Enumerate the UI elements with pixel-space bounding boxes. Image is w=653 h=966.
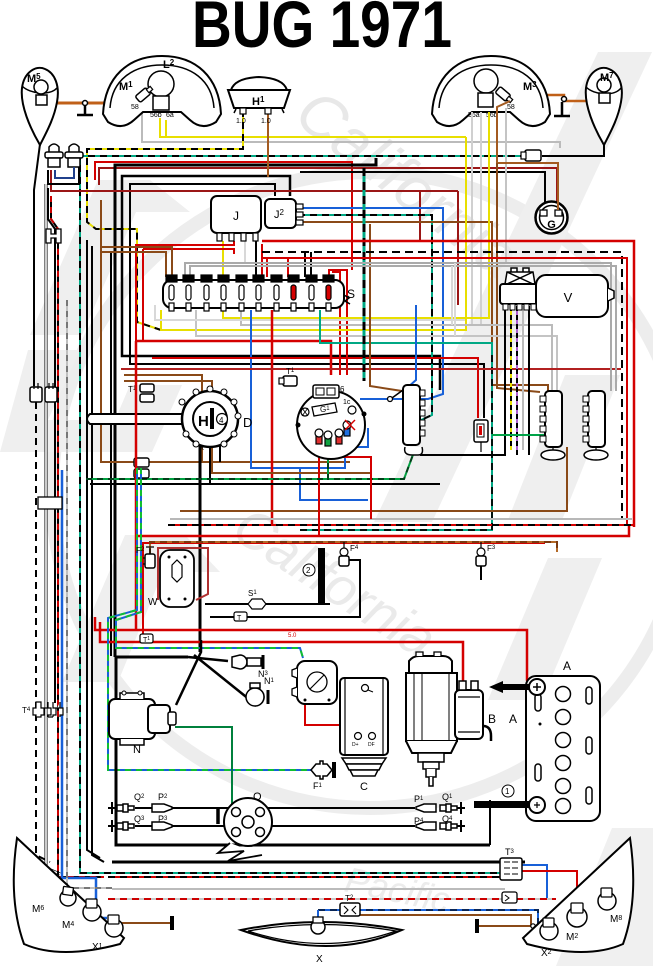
connector block K small (474, 420, 488, 452)
wire V dash1 x511 (510, 306, 512, 450)
svg-text:N: N (133, 744, 141, 756)
wire brown J2 long (298, 222, 548, 393)
arrow to plus (489, 681, 529, 693)
wire red drop fuse6b (266, 258, 268, 277)
interior light W (148, 550, 194, 608)
wire black G y172 (300, 172, 545, 209)
wire white J pin3 (244, 241, 246, 263)
wire yellow-black dash bus y149 (87, 110, 243, 330)
wire bottom bus redgray y899 (108, 898, 556, 900)
battery ground terminal (529, 797, 545, 813)
connector below T3 (502, 892, 517, 903)
svg-text:4: 4 (219, 416, 224, 425)
svg-text:O: O (253, 791, 262, 803)
watermark diagonal slash (374, 52, 652, 522)
wire yellow below fusebox y315 (223, 112, 489, 318)
wire spark main right y808 (268, 807, 415, 809)
taillight X2 right (523, 838, 633, 959)
wire bottom bus teal y873 (118, 872, 516, 874)
svg-text:BUG 1971: BUG 1971 (192, 0, 452, 61)
watermark corner bottom-right (556, 828, 653, 966)
connector 6 on top (313, 385, 339, 398)
svg-text:X: X (316, 954, 323, 965)
wire red y647 solenoid feed (100, 622, 463, 690)
taillight X1 left (14, 838, 124, 953)
svg-text:56b: 56b (150, 112, 162, 119)
fuse box S (163, 275, 355, 311)
wire brown right x565 (180, 447, 567, 511)
fuse F4 (339, 542, 359, 566)
wire red y369 (121, 368, 621, 370)
wire darkred bus y168 (99, 168, 557, 210)
svg-text:W: W (148, 597, 158, 608)
wire brown2 G feed (497, 101, 558, 210)
connector block right2 (583, 391, 608, 460)
svg-text:T: T (237, 615, 242, 622)
connector block E (x406-421) (388, 385, 426, 455)
wire brown elbow fuse0 (100, 252, 166, 277)
wire red T3 (519, 871, 577, 893)
fuse S1 (248, 589, 266, 609)
battery A (474, 659, 600, 821)
wire black-red dash left vertical (67, 300, 112, 888)
wire red vertical x272 (271, 310, 274, 525)
wire brown y375 hook (124, 375, 202, 462)
wire red bus y162 (95, 162, 352, 270)
wire brown mid x370 (370, 224, 402, 391)
red cross mark (345, 420, 355, 430)
svg-text:D+: D+ (352, 742, 359, 748)
wire brown left vertical (101, 200, 350, 462)
horn relay G (536, 202, 568, 234)
wire red J pin2 (136, 241, 234, 341)
wire gray bus y252 (190, 266, 616, 391)
T junction pair left y462 (134, 458, 149, 478)
wire black left vertical x87 (87, 240, 100, 858)
T junction pair x37 y390 (30, 383, 57, 402)
wire red regulator-generator (305, 704, 345, 735)
license light X (241, 917, 402, 965)
wire yellow y330 (161, 137, 466, 330)
wire red right outer x634 (262, 241, 634, 527)
wire blackdash right x622 (262, 252, 622, 519)
wire blue fuse drop x251 (251, 310, 345, 468)
distributor O (212, 791, 272, 861)
wire red box inner (143, 543, 545, 642)
wire bottom bus gray y889 (112, 888, 505, 890)
wire black engine frame left (116, 657, 490, 845)
wire black y359 (152, 358, 478, 418)
wire red vertical x340 (332, 272, 340, 375)
wire black brake U (48, 167, 79, 184)
58 connector left headlight (135, 85, 154, 103)
svg-text:R: R (199, 445, 204, 452)
58 connector right headlight (495, 86, 514, 104)
starter B (406, 652, 496, 786)
bulb X1 (105, 919, 123, 937)
wire red y526 (168, 524, 634, 526)
svg-text:56a: 56a (468, 112, 480, 119)
wire black engine frame top (116, 656, 188, 659)
wire yellow drop 6a (165, 120, 167, 137)
wire black right frame seg (489, 800, 491, 845)
svg-text:V: V (564, 290, 573, 305)
turn signal M5 (22, 68, 58, 145)
wire D drop black3 (219, 446, 221, 462)
wire M5 feed down (34, 144, 40, 386)
wire red drop fuse6 (261, 244, 263, 277)
wire bottom bus reddash y877 (108, 876, 512, 878)
junction node M5 ground (83, 101, 88, 106)
bulb red right (335, 429, 343, 444)
svg-text:1c: 1c (343, 399, 351, 406)
wire bluegreen to regulator (116, 468, 303, 658)
wire brown ground left (116, 922, 170, 924)
headlight assembly right (M3) (432, 56, 550, 126)
svg-text:58: 58 (131, 104, 139, 111)
svg-text:G: G (547, 219, 556, 231)
wire spark main left y826 (135, 825, 230, 827)
wire V black x505 (420, 306, 505, 455)
wire gray drop x241 (241, 310, 552, 391)
svg-text:5.0: 5.0 (288, 633, 297, 639)
wire brown ground right (479, 925, 531, 927)
wire red y640 engine feed (95, 617, 534, 686)
wire black T run y617 (210, 560, 360, 617)
instrument cluster (296, 385, 367, 459)
wire white vert x455 (454, 263, 456, 336)
wire cluster red drop1 (318, 450, 320, 536)
svg-text:1.0: 1.0 (236, 118, 246, 125)
wire cluster blue loop (340, 428, 368, 447)
wire M5 feed lower dashed to T4 (36, 402, 50, 862)
connector T y617 (234, 612, 247, 622)
svg-text:J: J (233, 209, 239, 223)
wire black S1 run (205, 603, 330, 605)
wire cluster green drop (86, 478, 328, 480)
svg-text:1.0: 1.0 (261, 118, 271, 125)
wire red drop fuse8 (287, 258, 289, 277)
wire teal-black dash J2 (298, 215, 432, 420)
wire yellow bus y137 (160, 118, 466, 137)
wire teal-black dash bus y156 (80, 156, 527, 873)
wire gray bus y142 (142, 110, 560, 148)
bulb M6 (60, 890, 76, 906)
watermark circle (52, 172, 653, 808)
wire black connector-to-M7 (542, 143, 604, 156)
fuel gauge G1 (312, 403, 337, 416)
svg-text:C: C (360, 781, 368, 793)
wire black bus y189 (130, 184, 484, 418)
wire brown-dash top W (150, 542, 557, 556)
watermark glyph right (508, 375, 620, 520)
connector T1 y658 (140, 634, 153, 644)
wire V dash3 x523 (522, 306, 524, 450)
connector T2 (340, 894, 360, 916)
wire white vert x452 (451, 266, 453, 325)
wire blackdash mid x364 (363, 168, 366, 381)
wire spark main left y808 (135, 807, 228, 809)
plug boots P2 P3 (152, 792, 172, 830)
wire D drop black2 (90, 483, 440, 485)
bulb M2 (567, 907, 587, 927)
brake switch left (45, 144, 63, 167)
horn H1 (228, 77, 290, 125)
ground bar bottom (474, 801, 529, 808)
wire brown horn drop (267, 110, 269, 177)
watermark glyph top-left (30, 180, 190, 335)
wire D drop black1 (199, 446, 202, 652)
bulb M4 (83, 903, 101, 921)
wire red fusebox loop (329, 270, 347, 375)
voltage regulator (292, 661, 337, 704)
bulb red left (315, 429, 323, 444)
svg-text:58: 58 (507, 104, 515, 111)
wire green generator (371, 700, 373, 737)
switch F2 (136, 546, 155, 568)
wire green coil-distributor (175, 727, 238, 818)
ignition coil N (109, 691, 176, 756)
wire bottom bus bluedash y910 (318, 910, 538, 925)
wire brown y381 hook (124, 381, 370, 473)
wire blue brake U (55, 167, 74, 178)
wire black left vertical x55 (48, 188, 55, 703)
wire blue J2 to cluster (298, 208, 443, 399)
bulb green (324, 431, 332, 446)
wire spark main right y826 (268, 825, 415, 827)
svg-text:A: A (509, 712, 517, 726)
wire bottom bus black y862 (112, 861, 525, 864)
relay J (211, 196, 261, 241)
svg-text:B: B (488, 712, 496, 726)
wire yellow J pin1 (222, 241, 224, 277)
ground symbol left front (77, 106, 93, 115)
turn signal M7 (586, 68, 622, 145)
bulb blue (343, 421, 351, 436)
inline connector on teal bus (525, 150, 541, 161)
fuse F3 (476, 542, 496, 566)
wire red box W top (135, 341, 138, 630)
ignition switch D (87, 386, 252, 452)
wire blue X drop (317, 910, 319, 919)
wire yellow y336 (196, 310, 557, 391)
wire black left vertical x111 (110, 252, 112, 656)
wire cluster red drop2 (339, 452, 371, 519)
wire black N1 N3 feeds (188, 657, 228, 661)
plug boots P1 P4 right (414, 794, 436, 830)
wire gray bus y248 (185, 263, 611, 391)
relay J2 (265, 199, 303, 228)
svg-text:DF: DF (368, 742, 375, 748)
bulb M8 (598, 892, 616, 910)
battery plus terminal (529, 679, 545, 695)
wire black bus y165 to frame (115, 158, 376, 657)
wire V dash2 x517 (516, 306, 518, 455)
valve N1 (246, 676, 275, 706)
wire black drop fuse9 (304, 252, 306, 277)
solenoid (455, 690, 483, 739)
T junction pair left x142 (128, 384, 154, 402)
wire left red vertical (51, 196, 104, 877)
wire left white vertical (46, 184, 60, 874)
wire brown elbow fuse1 (101, 247, 172, 277)
svg-text:H: H (198, 413, 209, 430)
svg-text:2: 2 (306, 566, 311, 575)
wire black drop fuse9b (310, 252, 312, 277)
wire bottom bus brown y916 (360, 915, 531, 926)
headlight assembly left (L2 M1) (103, 56, 221, 126)
wire black left vertical x92 (92, 246, 104, 862)
wire green to block c (492, 434, 549, 436)
junction node M7 ground (562, 97, 567, 102)
wire red right x627 (262, 258, 627, 525)
busbar (2) (303, 548, 325, 603)
svg-text:S: S (347, 287, 355, 301)
T4 comb connector (22, 702, 63, 717)
spark plugs Q1 Q4 (440, 792, 465, 832)
wire black J pin4 (255, 241, 257, 277)
connector block right1 (540, 391, 565, 460)
connector H left bundle (46, 229, 61, 243)
fuse F1 (311, 761, 334, 791)
bulb X2 (540, 922, 558, 940)
wire darkred bus y194 (51, 170, 458, 191)
ground symbol right front (554, 102, 570, 116)
wire red W loop (158, 548, 208, 600)
wire white right headlight drop2 (480, 112, 482, 325)
valve N3 (232, 655, 269, 679)
svg-text:D: D (243, 415, 252, 430)
svg-text:A: A (563, 659, 571, 673)
watermark glyph mid-left (62, 535, 220, 682)
splice box left pair (38, 497, 62, 509)
connector T3 (500, 847, 522, 880)
svg-text:6a: 6a (166, 112, 174, 119)
wire orange M5-to-M1 (52, 102, 134, 105)
wire V black x529 (528, 306, 530, 455)
wire orange M3-to-M7 (509, 95, 597, 105)
wiper motor V (500, 268, 614, 317)
wire blue F1 dash (108, 468, 311, 770)
wire teal y346 (300, 310, 492, 530)
wire gray 58 drop right (505, 108, 507, 263)
wire black stub F3 (480, 566, 482, 580)
pedal under E (405, 447, 423, 455)
connector T1 above cluster (279, 367, 297, 386)
wire white right headlight drop1 (471, 112, 473, 325)
cluster bulb white (301, 406, 356, 416)
wire blue x416 to E block (407, 305, 416, 388)
wire left blue vertical (62, 470, 107, 918)
brake switch right (65, 144, 83, 167)
wire black bus y183 (122, 176, 440, 390)
generator C (340, 678, 388, 793)
wire red bus y341 (136, 341, 331, 375)
spark plugs Q2 Q3 left (108, 792, 145, 832)
svg-text:6: 6 (340, 385, 345, 394)
wire maroon x458 (457, 191, 459, 305)
wire blue T3 (519, 865, 547, 898)
